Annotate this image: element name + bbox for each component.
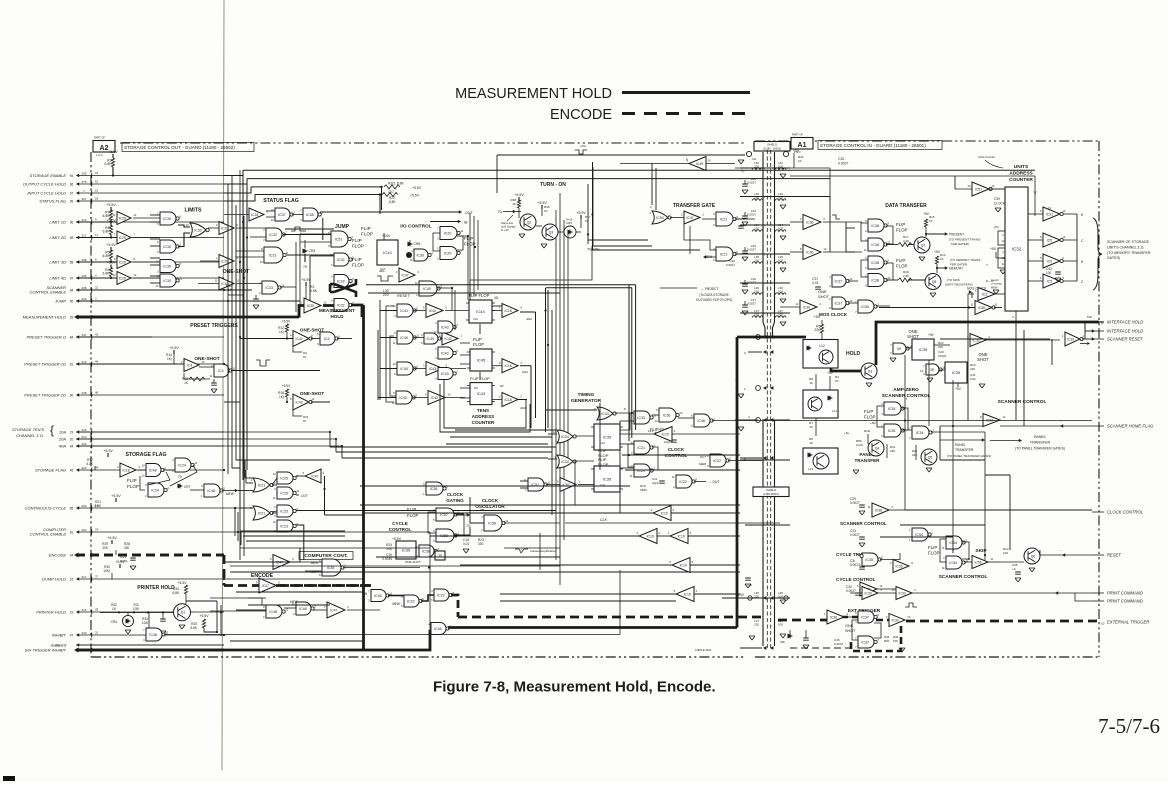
storage tens feeders: [329, 432, 331, 447]
svg-text:MEASUREMENT: MEASUREMENT: [319, 308, 355, 313]
nand IC38 dt3: [868, 256, 884, 269]
left row ticks: [91, 173, 93, 178]
svg-text:235: 235: [81, 391, 86, 395]
svg-text:FLIP: FLIP: [361, 226, 371, 231]
svg-text:1K: 1K: [835, 379, 839, 383]
svg-text:+5V: +5V: [934, 250, 941, 254]
svg-text:7Ω: 7Ω: [498, 210, 503, 214]
svg-text:+5.5V: +5.5V: [103, 449, 113, 453]
svg-text:IC36: IC36: [663, 413, 671, 417]
svg-text:2: 2: [886, 615, 888, 619]
svg-text:IC43: IC43: [441, 325, 449, 329]
box 39 cc: [435, 551, 445, 560]
svg-text:Transfer: Transfer: [587, 248, 600, 252]
svg-text:8: 8: [292, 557, 294, 561]
svg-text:7: 7: [855, 636, 857, 640]
svg-text:IC19: IC19: [661, 511, 668, 515]
inverter IC29 a: [117, 212, 131, 225]
svg-text:6: 6: [323, 471, 325, 475]
svg-text:2: 2: [293, 210, 295, 214]
nand IC48 bl2: [296, 602, 311, 615]
heavy encode long run: [458, 616, 762, 619]
mid lower diag lines: [500, 600, 676, 602]
svg-text:1K: 1K: [809, 381, 813, 385]
svg-text:2: 2: [157, 270, 159, 274]
svg-text:7: 7: [285, 230, 287, 234]
pulse glyph preset: [256, 360, 270, 366]
svg-text:R2Ω, 6.8K: R2Ω, 6.8K: [388, 182, 404, 186]
svg-text:6: 6: [263, 615, 265, 619]
encode area extra: [224, 561, 300, 563]
svg-text:47: 47: [70, 634, 74, 638]
svg-text:93: 93: [70, 316, 74, 320]
box IC44 io: [377, 240, 398, 265]
svg-text:1K: 1K: [809, 425, 813, 429]
svg-text:11: 11: [95, 233, 98, 237]
svg-text:2: 2: [481, 528, 483, 532]
uc input wires: [989, 188, 1005, 190]
pulse glyph io: [377, 276, 393, 281]
svg-text:PRINTER HOLD: PRINTER HOLD: [36, 610, 66, 615]
svg-text:1: 1: [931, 530, 933, 534]
svg-text:INPUT CYCLE HOLD: INPUT CYCLE HOLD: [27, 191, 66, 196]
svg-text:IC38: IC38: [306, 213, 314, 217]
svg-text:RESET: RESET: [397, 294, 410, 298]
nand IC23 s4: [277, 520, 293, 532]
svg-text:SCANNER OF STORAGE: SCANNER OF STORAGE: [1107, 240, 1150, 244]
svg-text:COMPUTER CONT.: COMPUTER CONT.: [304, 553, 347, 559]
svg-text:4: 4: [435, 356, 437, 360]
svg-text:IC22: IC22: [437, 593, 445, 597]
svg-text:IC42: IC42: [429, 309, 436, 313]
svg-text:2: 2: [673, 485, 675, 489]
svg-text:IC31: IC31: [269, 253, 277, 257]
svg-text:215: 215: [81, 608, 86, 612]
svg-text:2: 2: [865, 229, 867, 233]
svg-text:2: 2: [331, 263, 333, 267]
svg-text:44: 44: [70, 554, 74, 558]
svg-text:20K: 20K: [102, 546, 109, 550]
svg-text:5: 5: [223, 486, 225, 490]
svg-text:+5.5V: +5.5V: [106, 243, 116, 247]
svg-text:275: 275: [81, 180, 86, 184]
svg-text:6.8K: 6.8K: [190, 626, 197, 630]
A2 border top: [120, 142, 745, 144]
svg-text:STATUS FLAG: STATUS FLAG: [263, 198, 299, 204]
svg-text:IC43: IC43: [441, 372, 449, 376]
svg-text:7: 7: [114, 233, 116, 237]
svg-text:IC37: IC37: [861, 615, 869, 619]
svg-text:96: 96: [70, 221, 74, 225]
nand IC55 a1: [858, 300, 874, 313]
svg-text:(To DATA STORAGE: (To DATA STORAGE: [699, 293, 729, 297]
loop rect e: [360, 460, 575, 505]
svg-text:10: 10: [968, 184, 971, 188]
nand IC30 a: [160, 212, 176, 225]
svg-text:+5.5V: +5.5V: [200, 614, 210, 618]
svg-text:5: 5: [157, 250, 159, 254]
tg wires: [735, 218, 755, 220]
svg-text:IC19: IC19: [647, 534, 654, 538]
svg-text:3: 3: [923, 372, 925, 376]
svg-text:2: 2: [344, 563, 346, 567]
svg-text:8: 8: [692, 560, 694, 564]
svg-text:SCANNER CONTROL: SCANNER CONTROL: [998, 399, 1047, 405]
svg-text:IC38: IC38: [875, 508, 882, 512]
az cross: [901, 408, 908, 430]
corner mark: [3, 776, 15, 781]
svg-text:IC33: IC33: [899, 591, 906, 595]
svg-text:2: 2: [800, 217, 802, 221]
long wires bottom a2: [364, 578, 742, 580]
inverter IC32 g: [219, 277, 234, 290]
svg-text:243: 243: [81, 631, 86, 635]
svg-text:2: 2: [394, 314, 396, 318]
svg-text:4: 4: [216, 223, 218, 227]
svg-text:(TO PRESENT TRANS-: (TO PRESENT TRANS-: [949, 238, 981, 242]
inverter IC42 r1: [426, 304, 443, 318]
nand IC43 c3: [438, 368, 453, 380]
vertical feeder x247: [246, 179, 248, 470]
nand IC38 cc2: [419, 545, 434, 557]
svg-text:44: 44: [95, 360, 99, 364]
svg-text:IC18: IC18: [505, 364, 512, 368]
inverter IC19 t4: [672, 558, 690, 573]
inverter IC33 osb: [970, 334, 986, 347]
nand IC22 enc b: [434, 589, 449, 601]
mid band h4: [370, 571, 738, 573]
svg-text:IC48: IC48: [149, 468, 157, 472]
svg-text:IC38: IC38: [871, 224, 879, 228]
nand IC37 a1a: [832, 275, 846, 287]
svg-text:9: 9: [423, 482, 425, 486]
svg-text:10: 10: [679, 411, 682, 415]
heavy measurement hold left run: [76, 316, 299, 319]
svg-text:LIMITS: LIMITS: [184, 208, 202, 214]
stf long wires right: [296, 510, 556, 512]
svg-text:IC42: IC42: [431, 396, 438, 400]
svg-text:2x2K: 2x2K: [856, 443, 863, 447]
svg-text:CONTROL ENABLE: CONTROL ENABLE: [30, 289, 67, 294]
svg-text:1: 1: [997, 289, 999, 293]
svg-text:IC34: IC34: [916, 431, 924, 435]
svg-text:6.8K: 6.8K: [310, 289, 318, 293]
svg-text:40A: 40A: [59, 444, 66, 449]
panel box: [803, 390, 838, 418]
svg-text:10: 10: [708, 159, 711, 163]
hold box: [803, 340, 838, 369]
ffbox IC45 r3: [470, 383, 492, 405]
svg-text:COUNTER: COUNTER: [472, 420, 495, 425]
svg-text:1K: 1K: [809, 441, 813, 445]
svg-text:COUNTER: COUNTER: [1009, 177, 1033, 183]
svg-text:7: 7: [437, 226, 439, 230]
svg-text:8: 8: [319, 573, 321, 577]
bottom a2 long lines: [230, 571, 740, 573]
svg-text:CR6: CR6: [414, 242, 421, 246]
svg-text:+Rst: +Rst: [580, 144, 586, 148]
svg-text:214: 214: [81, 218, 86, 222]
svg-text:8: 8: [133, 257, 135, 261]
svg-text:IC36: IC36: [806, 250, 813, 254]
left mid horizontals: [184, 366, 224, 368]
svg-text:10: 10: [991, 184, 994, 188]
svg-text:5: 5: [1040, 256, 1042, 260]
svg-text:12: 12: [273, 472, 276, 476]
svg-text:ENCODE: ENCODE: [251, 573, 274, 579]
computer enable wire: [224, 531, 430, 533]
preset wire extends: [76, 363, 184, 365]
nand IC31: [264, 247, 283, 263]
svg-text:+5V: +5V: [955, 387, 962, 391]
svg-text:46: 46: [95, 391, 99, 395]
svg-text:9: 9: [736, 215, 738, 219]
svg-text:IC29: IC29: [119, 260, 126, 264]
svg-text:PRINT COMMAND: PRINT COMMAND: [1107, 599, 1143, 604]
svg-text:IC19: IC19: [662, 432, 669, 436]
svg-text:FLIP FLOP: FLIP FLOP: [469, 293, 490, 298]
io to turnon wires: [593, 245, 652, 247]
svg-text:I₀: I₀: [650, 205, 653, 209]
svg-text:9: 9: [881, 434, 883, 438]
svg-text:(TO MEMORY TRANS-: (TO MEMORY TRANS-: [950, 258, 981, 262]
loop rect f: [504, 500, 560, 548]
svg-text:IC35: IC35: [888, 407, 896, 411]
svg-text:4: 4: [435, 321, 437, 325]
inverter IC19 t3: [639, 529, 657, 544]
svg-text:223: 223: [81, 466, 86, 470]
transistor Q2: [520, 214, 536, 230]
svg-text:3: 3: [674, 429, 676, 433]
svg-text:6: 6: [435, 347, 437, 351]
A1 box label: [791, 138, 813, 150]
nand IC38 dt2: [868, 238, 884, 251]
svg-text:RESET: RESET: [1107, 553, 1121, 558]
svg-text:100pF: 100pF: [938, 354, 947, 358]
svg-text:IC32: IC32: [1012, 247, 1022, 252]
svg-text:0.0027: 0.0027: [747, 248, 756, 252]
svg-text:7: 7: [890, 343, 892, 347]
inverter IC36 et: [827, 610, 844, 624]
nand IC46 inh: [146, 628, 162, 641]
svg-text:CLOCK: CLOCK: [668, 447, 685, 452]
svg-text:OUT: OUT: [301, 494, 309, 498]
counter out vertical: [1076, 214, 1078, 281]
svg-text:4: 4: [435, 377, 437, 381]
svg-text:1K: 1K: [512, 202, 516, 206]
svg-text:IC5: IC5: [1047, 259, 1052, 263]
svg-text:6.8K: 6.8K: [172, 591, 179, 595]
svg-text:+5V: +5V: [827, 371, 834, 375]
A2 border left: [90, 152, 92, 657]
svg-text:IC23: IC23: [280, 524, 288, 528]
svg-text:0.01: 0.01: [970, 377, 976, 381]
inverter IC18 stf: [120, 463, 136, 477]
svg-text:11: 11: [296, 489, 299, 493]
svg-text:(1180-26501): (1180-26501): [763, 492, 779, 496]
shield crossing wires low: [762, 419, 790, 421]
svg-text:8: 8: [624, 407, 626, 411]
svg-text:9: 9: [317, 342, 319, 346]
svg-text:1: 1: [179, 242, 181, 246]
io wires: [430, 221, 459, 223]
svg-text:7: 7: [909, 426, 911, 430]
svg-text:39: 39: [930, 368, 934, 372]
svg-text:5: 5: [157, 222, 159, 226]
svg-text:4: 4: [259, 281, 261, 285]
svg-text:6.2K: 6.2K: [86, 462, 93, 466]
svg-text:+5.5V: +5.5V: [111, 494, 121, 498]
svg-text:5: 5: [1062, 276, 1064, 280]
diode CR3: [304, 240, 306, 248]
svg-text:12: 12: [142, 474, 145, 478]
mid band h2: [625, 469, 740, 471]
svg-text:LIMIT 3Ω: LIMIT 3Ω: [49, 260, 66, 265]
svg-text:7: 7: [909, 436, 911, 440]
svg-text:CONTROL ENABLE: CONTROL ENABLE: [30, 531, 67, 536]
nand IC46 enc: [371, 590, 386, 602]
svg-text:IC36: IC36: [896, 564, 903, 568]
svg-text:L21: L21: [832, 409, 837, 413]
svg-text:+5.5V: +5.5V: [106, 203, 116, 207]
svg-text:9: 9: [696, 589, 698, 593]
svg-text:Q2: Q2: [527, 220, 532, 224]
svg-text:IC33: IC33: [637, 416, 645, 420]
shield crossing arrows d: [763, 646, 766, 650]
svg-text:0.01: 0.01: [463, 542, 469, 546]
box IC32 uc: [1005, 187, 1028, 311]
inverter IC29 c: [117, 256, 131, 269]
nand IC57 tg: [528, 478, 544, 491]
svg-text:IC21: IC21: [258, 483, 266, 487]
svg-text:IC18: IC18: [505, 309, 512, 313]
svg-text:FLOP: FLOP: [352, 263, 364, 268]
svg-text:11: 11: [165, 630, 168, 634]
svg-text:IC18: IC18: [251, 213, 258, 217]
svg-text:7-5/7-6: 7-5/7-6: [1098, 714, 1160, 738]
svg-text:22K: 22K: [890, 449, 895, 453]
svg-text:IC34: IC34: [601, 412, 609, 416]
vertical bundle x240-252: [239, 214, 241, 560]
inverter IC47 io: [399, 268, 415, 282]
counter row inputs: [380, 310, 397, 312]
nand IC57 cc: [436, 508, 454, 521]
nand IC38 sf: [303, 208, 318, 221]
svg-text:FLOP: FLOP: [407, 513, 419, 518]
nand IC4 p2b: [214, 364, 229, 377]
svg-text:12: 12: [655, 419, 658, 423]
svg-text:IC47: IC47: [330, 608, 337, 612]
svg-text:2: 2: [324, 605, 326, 609]
inverter IC18 sf: [249, 208, 264, 221]
svg-text:220: 220: [754, 623, 759, 627]
ffbox IC35 tg2: [594, 466, 620, 492]
svg-text:ONE-SHOT: ONE-SHOT: [300, 391, 324, 396]
svg-text:2: 2: [681, 213, 683, 217]
counter loop right: [545, 288, 547, 432]
wire stub marks: [91, 553, 93, 557]
svg-text:247: 247: [81, 333, 86, 337]
svg-text:PRESENT: PRESENT: [949, 233, 965, 237]
svg-text:FLIP: FLIP: [896, 258, 905, 263]
nand IC35 az1: [884, 402, 901, 415]
svg-text:235: 235: [81, 171, 86, 175]
svg-text:11: 11: [868, 505, 871, 509]
svg-text:1ΩK: 1ΩK: [133, 607, 140, 611]
svg-text:4: 4: [649, 211, 651, 215]
svg-text:12: 12: [133, 213, 136, 217]
svg-text:4: 4: [172, 458, 174, 462]
svg-text:CLK: CLK: [473, 317, 478, 321]
svg-text:1K): 1K): [279, 330, 284, 334]
svg-text:IC35: IC35: [603, 435, 612, 440]
svg-text:1: 1: [668, 531, 670, 535]
svg-text:11: 11: [990, 557, 993, 561]
svg-text:IC35: IC35: [307, 304, 314, 308]
svg-text:100: 100: [778, 623, 783, 627]
svg-text:IC29: IC29: [119, 236, 126, 240]
nand IC37 a1b: [832, 297, 846, 309]
svg-text:+5.5V: +5.5V: [107, 536, 117, 540]
svg-text:IC36: IC36: [978, 306, 985, 310]
shield crossing wires: [740, 167, 790, 169]
pulse glyph et: [905, 603, 917, 607]
svg-text:97: 97: [70, 277, 74, 281]
svg-text:IC34: IC34: [561, 460, 569, 464]
svg-text:IC19: IC19: [680, 563, 687, 567]
svg-text:IC29: IC29: [119, 276, 126, 280]
svg-text:3: 3: [263, 238, 265, 242]
svg-text:IC25: IC25: [280, 491, 288, 495]
vertical feeder x590: [592, 167, 594, 246]
svg-text:IC58: IC58: [488, 521, 496, 525]
svg-text:SHIELD: SHIELD: [766, 488, 776, 492]
svg-text:2.2K: 2.2K: [903, 239, 909, 243]
nand IC21 ccl2: [634, 464, 650, 477]
svg-text:FER GATER): FER GATER): [951, 242, 969, 246]
svg-text:IC49: IC49: [696, 162, 703, 166]
svg-text:IC19: IC19: [678, 534, 685, 538]
svg-text:MEW: MEW: [226, 492, 235, 496]
svg-text:20A: 20A: [58, 437, 66, 442]
mid column verticals: [469, 213, 471, 300]
svg-text:JUMP: JUMP: [54, 299, 66, 304]
svg-text:STORAGE TEN'S: STORAGE TEN'S: [12, 427, 44, 432]
svg-text:11: 11: [994, 303, 997, 307]
svg-text:1: 1: [1002, 250, 1004, 254]
nand IC33 os: [262, 281, 278, 294]
ph c22: [160, 619, 166, 621]
A2 box label: [93, 141, 115, 153]
svg-text:7: 7: [460, 249, 462, 253]
svg-text:←: ←: [1060, 548, 1063, 552]
svg-text:IC38: IC38: [871, 278, 879, 282]
svg-text:0.0027: 0.0027: [850, 501, 860, 505]
a1 verticals extra: [1015, 322, 1017, 420]
svg-text:22: 22: [70, 611, 74, 615]
svg-text:ADDRESS: ADDRESS: [472, 414, 494, 419]
svg-text:R1Ω: R1Ω: [864, 429, 871, 433]
svg-text:18: 18: [95, 197, 99, 201]
svg-text:IC30: IC30: [163, 264, 171, 268]
svg-text:IC46: IC46: [374, 594, 382, 598]
shield crossing arrows b: [763, 418, 766, 422]
svg-text:2: 2: [164, 466, 166, 470]
svg-text:IC40: IC40: [427, 337, 435, 341]
svg-text:IC38: IC38: [871, 261, 879, 265]
svg-text:3: 3: [274, 487, 276, 491]
bus line C: [251, 186, 382, 188]
